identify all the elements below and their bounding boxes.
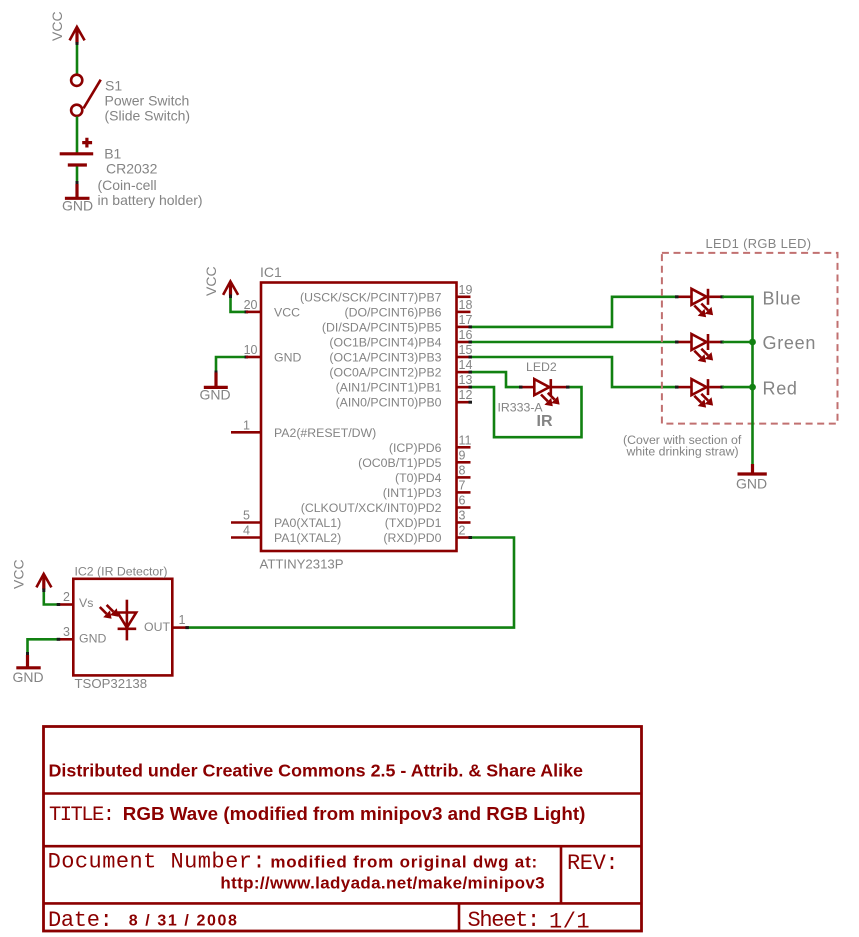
title block frame bbox=[44, 727, 642, 932]
svg-text:(AIN0/PCINT0)PB0: (AIN0/PCINT0)PB0 bbox=[336, 396, 442, 410]
IC1 right pin 15 bbox=[457, 356, 471, 359]
IC2 pin 2 bbox=[58, 603, 73, 606]
svg-text:VCC: VCC bbox=[274, 305, 300, 319]
svg-text:4: 4 bbox=[243, 524, 250, 538]
IC1 left pin 10 bbox=[246, 356, 261, 359]
IC1 right pin 8 bbox=[457, 476, 471, 479]
svg-text:B1: B1 bbox=[104, 146, 121, 162]
svg-text:(OC1A/PCINT3)PB3: (OC1A/PCINT3)PB3 bbox=[329, 351, 441, 365]
svg-text:2: 2 bbox=[63, 590, 70, 604]
IC2 pin 3 bbox=[58, 638, 73, 641]
svg-text:GND: GND bbox=[200, 387, 231, 403]
svg-text:GND: GND bbox=[13, 669, 44, 685]
svg-text:ATTINY2313P: ATTINY2313P bbox=[260, 557, 344, 572]
svg-text:7: 7 bbox=[459, 478, 466, 492]
switch S1 bbox=[71, 75, 190, 124]
svg-text:Blue: Blue bbox=[763, 289, 802, 309]
IC1 right pin 13 bbox=[457, 386, 471, 389]
svg-text:6: 6 bbox=[459, 494, 466, 508]
svg-text:(ICP)PD6: (ICP)PD6 bbox=[389, 441, 442, 455]
svg-text:15: 15 bbox=[459, 343, 473, 357]
IC1 left pin 1 bbox=[231, 431, 261, 434]
wire VCC to pin 20 bbox=[231, 295, 247, 312]
svg-text:(OC1B/PCINT4)PB4: (OC1B/PCINT4)PB4 bbox=[329, 336, 441, 350]
IC1 left pin 20 bbox=[246, 311, 261, 314]
svg-text:PA0(XTAL1): PA0(XTAL1) bbox=[274, 516, 341, 530]
svg-text:(OC0B/T1)PD5: (OC0B/T1)PD5 bbox=[358, 456, 442, 470]
IC2 IR detector body bbox=[73, 565, 172, 692]
wire pin 17 to Blue LED bbox=[470, 297, 677, 327]
svg-text:RGB Wave (modified from minipo: RGB Wave (modified from minipov3 and RGB… bbox=[123, 803, 586, 824]
IC1 left pin 4 bbox=[231, 536, 261, 539]
svg-text:GND: GND bbox=[274, 351, 301, 365]
svg-text:Sheet:: Sheet: bbox=[468, 908, 539, 933]
svg-text:(DI/SDA/PCINT5)PB5: (DI/SDA/PCINT5)PB5 bbox=[322, 320, 442, 334]
IC1 right pin 7 bbox=[457, 491, 471, 494]
svg-text:TSOP32138: TSOP32138 bbox=[75, 676, 148, 691]
wire VCC to switch S1 bbox=[76, 42, 79, 74]
svg-text:(T0)PD4: (T0)PD4 bbox=[395, 471, 442, 485]
svg-text:20: 20 bbox=[244, 298, 258, 312]
IC1 right pin 11 bbox=[457, 446, 471, 449]
svg-text:(CLKOUT/XCK/INT0)PD2: (CLKOUT/XCK/INT0)PD2 bbox=[301, 501, 442, 515]
wire S1 to battery B1 bbox=[76, 117, 79, 154]
svg-text:8 / 31 / 2008: 8 / 31 / 2008 bbox=[129, 913, 239, 930]
svg-text:IC1: IC1 bbox=[260, 264, 282, 280]
svg-text:17: 17 bbox=[459, 313, 473, 327]
svg-text:GND: GND bbox=[79, 632, 106, 646]
wire pin 15 to Red LED bbox=[470, 357, 677, 387]
wire VCC to IC2 pin 2 bbox=[44, 589, 58, 605]
IC1 ATTINY2313P body bbox=[260, 264, 457, 572]
wire IC2 OUT to IC1 pin 2 bbox=[187, 538, 514, 628]
svg-text:(Coin-cell: (Coin-cell bbox=[98, 177, 157, 193]
battery B1 bbox=[60, 138, 203, 208]
svg-text:13: 13 bbox=[459, 373, 473, 387]
svg-text:1/1: 1/1 bbox=[549, 910, 590, 935]
LED red bbox=[675, 379, 724, 408]
svg-text:S1: S1 bbox=[105, 78, 122, 94]
LED green bbox=[675, 334, 724, 363]
svg-text:12: 12 bbox=[459, 388, 473, 402]
svg-text:OUT: OUT bbox=[144, 620, 170, 634]
node junction green row bbox=[749, 339, 756, 346]
IC1 right pin 18 bbox=[457, 311, 471, 314]
svg-text:9: 9 bbox=[459, 448, 466, 462]
svg-text:(AIN1/PCINT1)PB1: (AIN1/PCINT1)PB1 bbox=[336, 381, 442, 395]
ground at IC2 bbox=[13, 655, 44, 685]
svg-text:(DO/PCINT6)PB6: (DO/PCINT6)PB6 bbox=[344, 305, 441, 319]
svg-text:(OC0A/PCINT2)PB2: (OC0A/PCINT2)PB2 bbox=[329, 366, 441, 380]
svg-text:Document Number:: Document Number: bbox=[48, 850, 266, 875]
svg-text:(Slide Switch): (Slide Switch) bbox=[105, 108, 191, 124]
wire pin 13 to LED2 cathode loop bbox=[470, 387, 582, 437]
IC1 right pin 16 bbox=[457, 341, 471, 344]
IC1 right pin 14 bbox=[457, 371, 471, 374]
svg-text:5: 5 bbox=[243, 509, 250, 523]
svg-text:REV:: REV: bbox=[567, 851, 618, 876]
svg-text:19: 19 bbox=[459, 283, 473, 297]
svg-text:PA2(#RESET/DW): PA2(#RESET/DW) bbox=[274, 426, 376, 440]
IC1 right pin 2 bbox=[457, 536, 471, 539]
svg-text:LED2: LED2 bbox=[526, 360, 557, 374]
svg-text:8: 8 bbox=[459, 463, 466, 477]
svg-text:11: 11 bbox=[459, 433, 472, 447]
svg-text:3: 3 bbox=[63, 625, 70, 639]
IC1 right pin 9 bbox=[457, 461, 471, 464]
svg-text:GND: GND bbox=[62, 198, 93, 214]
LED blue bbox=[675, 289, 724, 318]
svg-text:10: 10 bbox=[244, 343, 258, 357]
svg-text:CR2032: CR2032 bbox=[106, 161, 158, 177]
power VCC symbol top-left bbox=[49, 11, 85, 43]
svg-text:PA1(XTAL2): PA1(XTAL2) bbox=[274, 531, 341, 545]
svg-text:VCC: VCC bbox=[203, 266, 219, 296]
IC1 right pin 19 bbox=[457, 295, 471, 298]
wire pin 14 to LED2 anode bbox=[470, 372, 521, 387]
ground at IC1 pin 10 bbox=[200, 373, 231, 403]
wire pin 16 to Green LED bbox=[470, 341, 677, 344]
svg-text:18: 18 bbox=[459, 298, 473, 312]
power VCC symbol at IC2 bbox=[11, 559, 52, 589]
svg-text:Power Switch: Power Switch bbox=[105, 93, 190, 109]
svg-text:(INT1)PD3: (INT1)PD3 bbox=[383, 486, 442, 500]
svg-text:3: 3 bbox=[459, 509, 466, 523]
svg-text:GND: GND bbox=[736, 476, 767, 492]
IC1 right pin 3 bbox=[457, 521, 471, 524]
LED2 IR333-A bbox=[498, 360, 570, 430]
svg-text:Distributed under Creative Com: Distributed under Creative Commons 2.5 -… bbox=[49, 761, 584, 781]
svg-text:1: 1 bbox=[179, 613, 186, 627]
wire pin 10 to ground bbox=[216, 357, 246, 372]
IC1 right pin 6 bbox=[457, 506, 471, 509]
svg-text:2: 2 bbox=[459, 524, 466, 538]
wire IC2 pin 3 to ground bbox=[28, 639, 59, 654]
svg-text:1: 1 bbox=[243, 418, 250, 432]
svg-text:IR: IR bbox=[537, 413, 553, 430]
svg-text:Date:: Date: bbox=[48, 908, 113, 933]
svg-text:LED1 (RGB LED): LED1 (RGB LED) bbox=[706, 236, 812, 251]
svg-text:(TXD)PD1: (TXD)PD1 bbox=[385, 516, 442, 530]
IC1 pin name labels bbox=[274, 290, 442, 545]
svg-text:white drinking straw): white drinking straw) bbox=[626, 445, 739, 459]
ground below battery bbox=[62, 184, 93, 214]
wire B1 to ground bbox=[76, 167, 79, 184]
node junction red row bbox=[749, 384, 756, 391]
svg-text:Vs: Vs bbox=[79, 596, 93, 610]
svg-text:14: 14 bbox=[459, 358, 473, 372]
IC1 left pin 5 bbox=[231, 521, 261, 524]
svg-text:IC2 (IR Detector): IC2 (IR Detector) bbox=[75, 565, 168, 579]
wire LED cathodes to ground bbox=[722, 297, 752, 464]
svg-text:(RXD)PD0: (RXD)PD0 bbox=[383, 531, 441, 545]
power VCC symbol at IC1 pin 20 bbox=[203, 266, 238, 296]
IC2 pin 1 OUT bbox=[172, 626, 187, 629]
IC1 right pin 12 bbox=[457, 401, 471, 404]
photodiode inside IC2 bbox=[100, 600, 136, 641]
svg-text:16: 16 bbox=[459, 328, 473, 342]
svg-text:http://www.ladyada.net/make/mi: http://www.ladyada.net/make/minipov3 bbox=[220, 874, 545, 893]
svg-text:Red: Red bbox=[763, 379, 798, 399]
ground below LED1 bbox=[736, 464, 767, 492]
svg-text:(USCK/SCK/PCINT7)PB7: (USCK/SCK/PCINT7)PB7 bbox=[300, 290, 442, 304]
LED1 dashed enclosure bbox=[662, 253, 838, 424]
svg-text:in battery holder): in battery holder) bbox=[98, 192, 203, 208]
svg-text:VCC: VCC bbox=[49, 11, 65, 41]
IC1 right pin 17 bbox=[457, 326, 471, 329]
svg-text:Green: Green bbox=[763, 333, 817, 353]
svg-text:modified from original dwg at:: modified from original dwg at: bbox=[270, 853, 538, 872]
svg-text:VCC: VCC bbox=[11, 559, 27, 589]
svg-text:TITLE:: TITLE: bbox=[49, 804, 114, 827]
